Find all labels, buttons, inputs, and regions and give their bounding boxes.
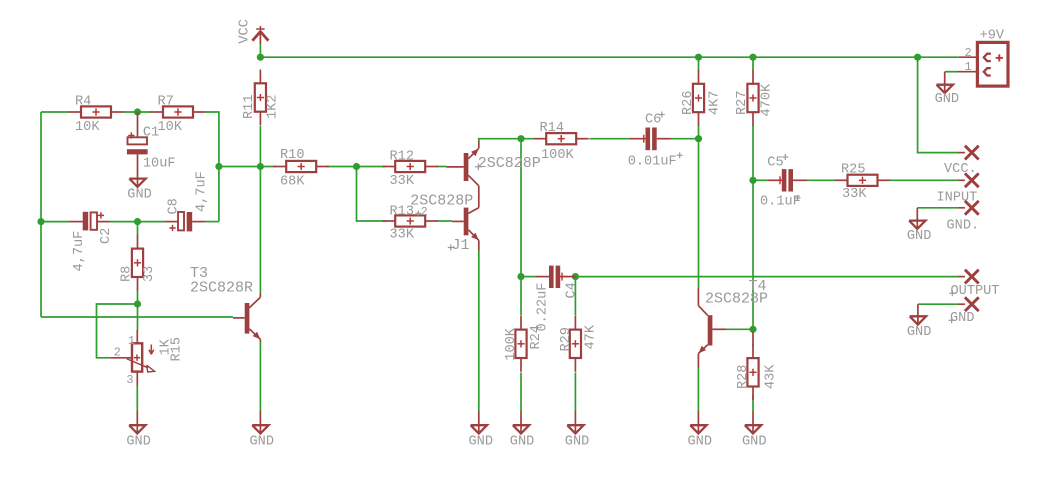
label R25 xyxy=(841,162,865,177)
label GND output jack xyxy=(907,325,931,340)
junction C4 right / R29 xyxy=(572,273,579,280)
value C8 4,7uF xyxy=(195,171,210,212)
svg-text:100K: 100K xyxy=(541,148,574,163)
value R10 68K xyxy=(280,174,305,189)
capacitor C5 0.1uF xyxy=(768,169,807,191)
pad X GND output xyxy=(958,297,979,311)
transistor T3 2SC828R xyxy=(233,294,261,343)
wire R8 bottom to node xyxy=(137,291,139,305)
svg-text:GND: GND xyxy=(127,188,151,203)
resistor R4 xyxy=(68,106,123,117)
ground below R29 xyxy=(567,411,583,434)
svg-text:VCC.: VCC. xyxy=(944,162,977,177)
ground below C1 xyxy=(129,179,145,187)
svg-text:R10: R10 xyxy=(280,148,304,163)
resistor R12 xyxy=(383,161,438,172)
resistor R26 xyxy=(693,70,704,126)
svg-text:C5: C5 xyxy=(767,156,783,171)
resistor R14 xyxy=(534,133,589,144)
svg-text:R4: R4 xyxy=(75,95,91,110)
svg-text:1K: 1K xyxy=(158,338,173,355)
capacitor C8 4,7uF xyxy=(164,212,205,231)
resistor R8 xyxy=(132,235,143,291)
svg-text:+9V: +9V xyxy=(980,29,1005,44)
label C6 origin cross xyxy=(659,112,665,118)
wire J1 emitter down xyxy=(478,251,480,412)
wire R26 bottom gap xyxy=(698,126,700,139)
junction R8/R15 feedback node xyxy=(134,300,141,307)
wire R29 top xyxy=(574,277,576,316)
label R11 xyxy=(242,95,257,119)
label C8 xyxy=(167,198,182,214)
pad X OUTPUT xyxy=(958,270,979,284)
svg-text:0.1uF: 0.1uF xyxy=(760,194,801,209)
wire left bus vertical x=41 xyxy=(40,112,42,317)
wire C4 branch vertical x=521 xyxy=(520,139,522,277)
resistor R25 xyxy=(835,175,890,186)
ground below T4 xyxy=(690,411,706,434)
value R14 100K xyxy=(541,148,574,163)
wire VCC rail (net VCC, y=57) xyxy=(260,56,958,58)
label GND output origin cross xyxy=(949,317,955,323)
svg-text:GND: GND xyxy=(126,434,150,449)
ground below T3 xyxy=(252,411,268,434)
wire T3 emitter down xyxy=(259,342,261,411)
svg-text:GND: GND xyxy=(950,311,974,326)
svg-text:470K: 470K xyxy=(760,83,775,116)
label C1 xyxy=(143,126,159,141)
ground battery pin1 xyxy=(937,72,953,93)
label GND R29 xyxy=(565,434,589,449)
svg-text:3: 3 xyxy=(126,373,133,387)
wire C5 to R25 xyxy=(807,179,836,181)
wire R27 bottom to C5 node xyxy=(752,126,754,181)
wire R4-R7 node xyxy=(123,111,151,113)
label R13 xyxy=(390,205,414,220)
svg-text:10K: 10K xyxy=(158,120,183,135)
wire C2-C8 node xyxy=(110,221,164,223)
label C6 xyxy=(645,113,661,128)
label GND output pad xyxy=(950,311,974,326)
svg-text:1K2: 1K2 xyxy=(265,95,280,119)
svg-text:33: 33 xyxy=(142,266,157,282)
pad X GND input xyxy=(958,201,979,215)
wire R4 left to left bus xyxy=(41,111,69,113)
wire R24 bottom xyxy=(520,373,522,412)
capacitor C4 0.22uF xyxy=(535,266,576,288)
label GND R28 xyxy=(742,434,766,449)
label VCC xyxy=(237,19,252,43)
value C2 4,7uF xyxy=(72,231,87,272)
svg-text:2SC828R: 2SC828R xyxy=(190,279,253,296)
resistor R29 xyxy=(570,316,581,372)
svg-text:R25: R25 xyxy=(841,162,865,177)
svg-text:R7: R7 xyxy=(158,95,174,110)
svg-text:VCC: VCC xyxy=(237,19,252,43)
label GND C1 xyxy=(127,188,151,203)
svg-text:33K: 33K xyxy=(390,227,415,242)
resistor R11 xyxy=(255,70,266,126)
value R11 1K2 xyxy=(265,95,280,119)
transistor T4 2SC828P xyxy=(698,288,726,368)
ground input jack xyxy=(909,208,925,229)
svg-text:43K: 43K xyxy=(763,364,778,389)
value J1 2SC828P xyxy=(410,193,473,210)
connector battery +9V xyxy=(958,42,1009,86)
value C4 0.22uF xyxy=(536,283,551,332)
wire output GND pad row xyxy=(918,303,958,305)
svg-text:1: 1 xyxy=(965,60,972,74)
wire T3 base bus xyxy=(41,316,233,318)
svg-text:OUTPUT: OUTPUT xyxy=(951,284,1000,299)
svg-text:J1: J1 xyxy=(452,237,470,254)
svg-text:10K: 10K xyxy=(75,120,100,135)
value R28 43K xyxy=(763,364,778,389)
value R12 33K xyxy=(390,174,415,189)
label R8 xyxy=(120,266,135,282)
resistor R28 xyxy=(747,332,758,401)
wire junction to T3 collector xyxy=(259,167,261,294)
resistor R27 xyxy=(747,70,758,126)
ground below R28 xyxy=(745,411,761,434)
label GND R15 xyxy=(126,434,150,449)
label GND T3 xyxy=(250,434,274,449)
label R26 xyxy=(681,91,696,115)
label GND. pad xyxy=(947,218,980,233)
svg-text:47K: 47K xyxy=(584,324,599,349)
ground below R15 xyxy=(129,411,145,434)
resistor R13 xyxy=(383,215,438,226)
resistor R7 xyxy=(150,106,205,117)
svg-text:R28: R28 xyxy=(736,365,751,389)
wire R15 pin3 down xyxy=(136,386,138,412)
ground below J1 xyxy=(471,411,487,434)
svg-text:100K: 100K xyxy=(504,327,519,360)
pad X INPUT xyxy=(958,173,979,187)
label C5 origin cross xyxy=(782,154,788,160)
label GND R24 xyxy=(510,434,534,449)
VCC power symbol xyxy=(252,26,268,44)
pin 2 R15 xyxy=(114,346,121,360)
label +9V xyxy=(980,29,1005,44)
junction T4 base / R28 xyxy=(749,326,756,333)
wire C6 to R26 node xyxy=(672,138,699,140)
label GND T4 xyxy=(688,434,712,449)
svg-text:R14: R14 xyxy=(540,121,564,136)
label R27 xyxy=(735,91,750,115)
junction VCC rail / R27 xyxy=(749,54,756,61)
label J1 origin cross xyxy=(448,245,454,251)
svg-text:R8: R8 xyxy=(120,266,135,282)
junction C6/R26/T4 xyxy=(695,135,702,142)
svg-text:2SC828P: 2SC828P xyxy=(478,155,541,172)
value C6 origin cross xyxy=(677,152,683,158)
label GND input jack xyxy=(907,229,931,244)
junction row276 / R24 xyxy=(517,273,524,280)
svg-text:GND: GND xyxy=(688,434,712,449)
junction R27/C5 node xyxy=(749,177,756,184)
svg-text:R27: R27 xyxy=(735,91,750,115)
svg-text:R26: R26 xyxy=(681,91,696,115)
label C5 xyxy=(767,156,783,171)
label R14 xyxy=(540,121,564,136)
svg-text:R11: R11 xyxy=(242,95,257,119)
value Q1 2SC828P xyxy=(478,155,541,172)
wire R7 right corner xyxy=(206,112,219,222)
label R15 xyxy=(170,337,185,361)
label R28 xyxy=(736,365,751,389)
capacitor C2 4,7uF xyxy=(69,212,110,231)
label T3 xyxy=(190,265,208,282)
junction row138 / C4 branch xyxy=(517,135,524,142)
junction R4/R7/C1 xyxy=(134,108,141,115)
pin 1 R15 xyxy=(128,334,135,348)
wire R11 bottom to junction xyxy=(259,126,261,167)
wire C4 right to OUTPUT xyxy=(575,276,958,278)
label C2 xyxy=(99,228,114,244)
wire Q1 emitter row y=138 xyxy=(479,139,535,141)
wire battery pin1 to GND xyxy=(945,71,958,73)
wire C8 right gap xyxy=(205,221,219,223)
svg-text:2: 2 xyxy=(114,346,121,360)
junction left bus bottom xyxy=(37,218,44,225)
wire feedback loop to R15 pin2 xyxy=(97,304,138,358)
wire R26 top gap xyxy=(698,57,700,70)
label R10 xyxy=(280,148,304,163)
wire R24 top xyxy=(520,277,522,316)
value R24 100K xyxy=(504,327,519,360)
svg-text:0.01uF: 0.01uF xyxy=(628,154,677,169)
wire R14 to C6 xyxy=(590,138,629,140)
svg-text:33K: 33K xyxy=(390,174,415,189)
svg-text:C4: C4 xyxy=(565,282,580,298)
label J1 xyxy=(452,237,470,254)
value T4 2SC828P xyxy=(705,291,768,308)
svg-text:C2: C2 xyxy=(99,228,114,244)
value C6 0.01uF xyxy=(628,154,677,169)
value T3 2SC828R xyxy=(190,279,253,296)
value C1 10uF xyxy=(143,156,176,171)
transistor J1 2SC828P lower xyxy=(452,208,479,251)
svg-text:GND: GND xyxy=(907,229,931,244)
svg-text:2: 2 xyxy=(421,205,428,219)
svg-text:C8: C8 xyxy=(167,198,182,214)
svg-text:33K: 33K xyxy=(842,187,867,202)
wire R13 branch xyxy=(357,167,386,222)
label R4 xyxy=(75,95,91,110)
svg-text:GND: GND xyxy=(907,325,931,340)
pin 2 J1 base xyxy=(416,205,428,219)
wire bottom row C2 left xyxy=(41,221,69,223)
value R13 33K xyxy=(390,227,415,242)
junction right bus / row166 xyxy=(215,163,222,170)
svg-text:2SC828P: 2SC828P xyxy=(705,291,768,308)
svg-text:GND: GND xyxy=(935,92,959,107)
pin 2 battery xyxy=(965,46,972,60)
svg-text:68K: 68K xyxy=(280,174,305,189)
pad X VCC xyxy=(958,146,979,160)
label OUTPUT origin cross xyxy=(949,290,955,296)
label GND J1 xyxy=(469,434,493,449)
transistor Q1 2SC828P upper xyxy=(447,141,479,208)
svg-text:GND: GND xyxy=(250,434,274,449)
wire R13 right gap xyxy=(437,220,453,222)
capacitor C6 0.01uF xyxy=(629,128,672,151)
wire row166 left segment xyxy=(219,166,276,168)
svg-text:R29: R29 xyxy=(559,327,574,351)
junction C2/C8/R8 xyxy=(134,218,141,225)
potentiometer R15 xyxy=(110,330,154,386)
label R24 xyxy=(529,325,544,349)
svg-text:GND: GND xyxy=(469,434,493,449)
value R29 47K xyxy=(584,324,599,349)
svg-text:GND: GND xyxy=(565,434,589,449)
wire row276 left xyxy=(521,276,535,278)
wire node to R15 pin1 xyxy=(137,304,139,330)
label INPUT pad xyxy=(937,190,978,205)
label VCC. pad xyxy=(944,162,977,177)
pin 1 battery xyxy=(965,60,972,74)
svg-text:0.22uF: 0.22uF xyxy=(536,283,551,332)
svg-text:2: 2 xyxy=(965,46,972,60)
junction R10 left / R11 bottom xyxy=(257,163,264,170)
value R26 4K7 xyxy=(707,91,722,115)
svg-text:4,7uF: 4,7uF xyxy=(195,171,210,212)
label Q1 origin cross xyxy=(475,163,482,170)
wire R27 top gap xyxy=(752,57,754,70)
label GND battery xyxy=(935,92,959,107)
value R15 1K xyxy=(158,338,173,355)
wire R29 bottom xyxy=(574,373,576,412)
label T4 xyxy=(749,278,767,295)
resistor R24 xyxy=(515,316,526,372)
svg-text:GND.: GND. xyxy=(947,218,980,233)
wire C5 row left gap xyxy=(753,179,768,181)
capacitor C1 10uF xyxy=(127,112,148,186)
label R7 xyxy=(158,95,174,110)
wire R28 bottom gap xyxy=(752,395,754,412)
svg-text:4K7: 4K7 xyxy=(707,91,722,115)
label R29 xyxy=(559,327,574,351)
wire GND pad row xyxy=(917,207,958,209)
ground below R24 xyxy=(513,411,529,434)
svg-text:10uF: 10uF xyxy=(143,156,176,171)
wire R12 right gap xyxy=(437,166,447,168)
wire T4 emitter down xyxy=(697,368,699,411)
wire VCC symbol stem xyxy=(259,44,261,57)
resistor R10 xyxy=(274,161,329,172)
label R12 xyxy=(390,150,414,165)
junction VCC rail / R11 xyxy=(257,54,264,61)
wire R8 top gap xyxy=(137,222,139,236)
ground output jack xyxy=(910,304,926,324)
wire R25 to INPUT xyxy=(890,179,958,181)
value R7 10K xyxy=(158,120,183,135)
junction VCC rail / battery drop xyxy=(914,54,921,61)
svg-text:R12: R12 xyxy=(390,150,414,165)
junction R10/R12/R13 xyxy=(353,163,360,170)
svg-text:C1: C1 xyxy=(143,126,159,141)
label C4 xyxy=(565,282,580,298)
svg-text:1: 1 xyxy=(128,334,135,348)
svg-text:GND: GND xyxy=(510,434,534,449)
wire R10 right to R12 node xyxy=(327,166,385,168)
value R4 10K xyxy=(75,120,100,135)
wire battery drop to VCC pad xyxy=(918,57,959,152)
value C5 0.1uF xyxy=(760,194,801,209)
svg-text:GND: GND xyxy=(742,434,766,449)
svg-text:INPUT: INPUT xyxy=(937,190,978,205)
junction VCC rail / R26 xyxy=(695,54,702,61)
pin 3 R15 xyxy=(126,373,133,387)
value C5 origin cross xyxy=(795,195,801,201)
label OUTPUT pad xyxy=(951,284,1000,299)
value R25 33K xyxy=(842,187,867,202)
value R27 470K xyxy=(760,83,775,116)
value R8 33 xyxy=(142,266,157,282)
wire C5 node down to R28 xyxy=(752,180,754,329)
wire T4 base gap xyxy=(726,328,750,330)
wire T4 collector drop xyxy=(698,139,700,288)
svg-text:4,7uF: 4,7uF xyxy=(72,231,87,272)
